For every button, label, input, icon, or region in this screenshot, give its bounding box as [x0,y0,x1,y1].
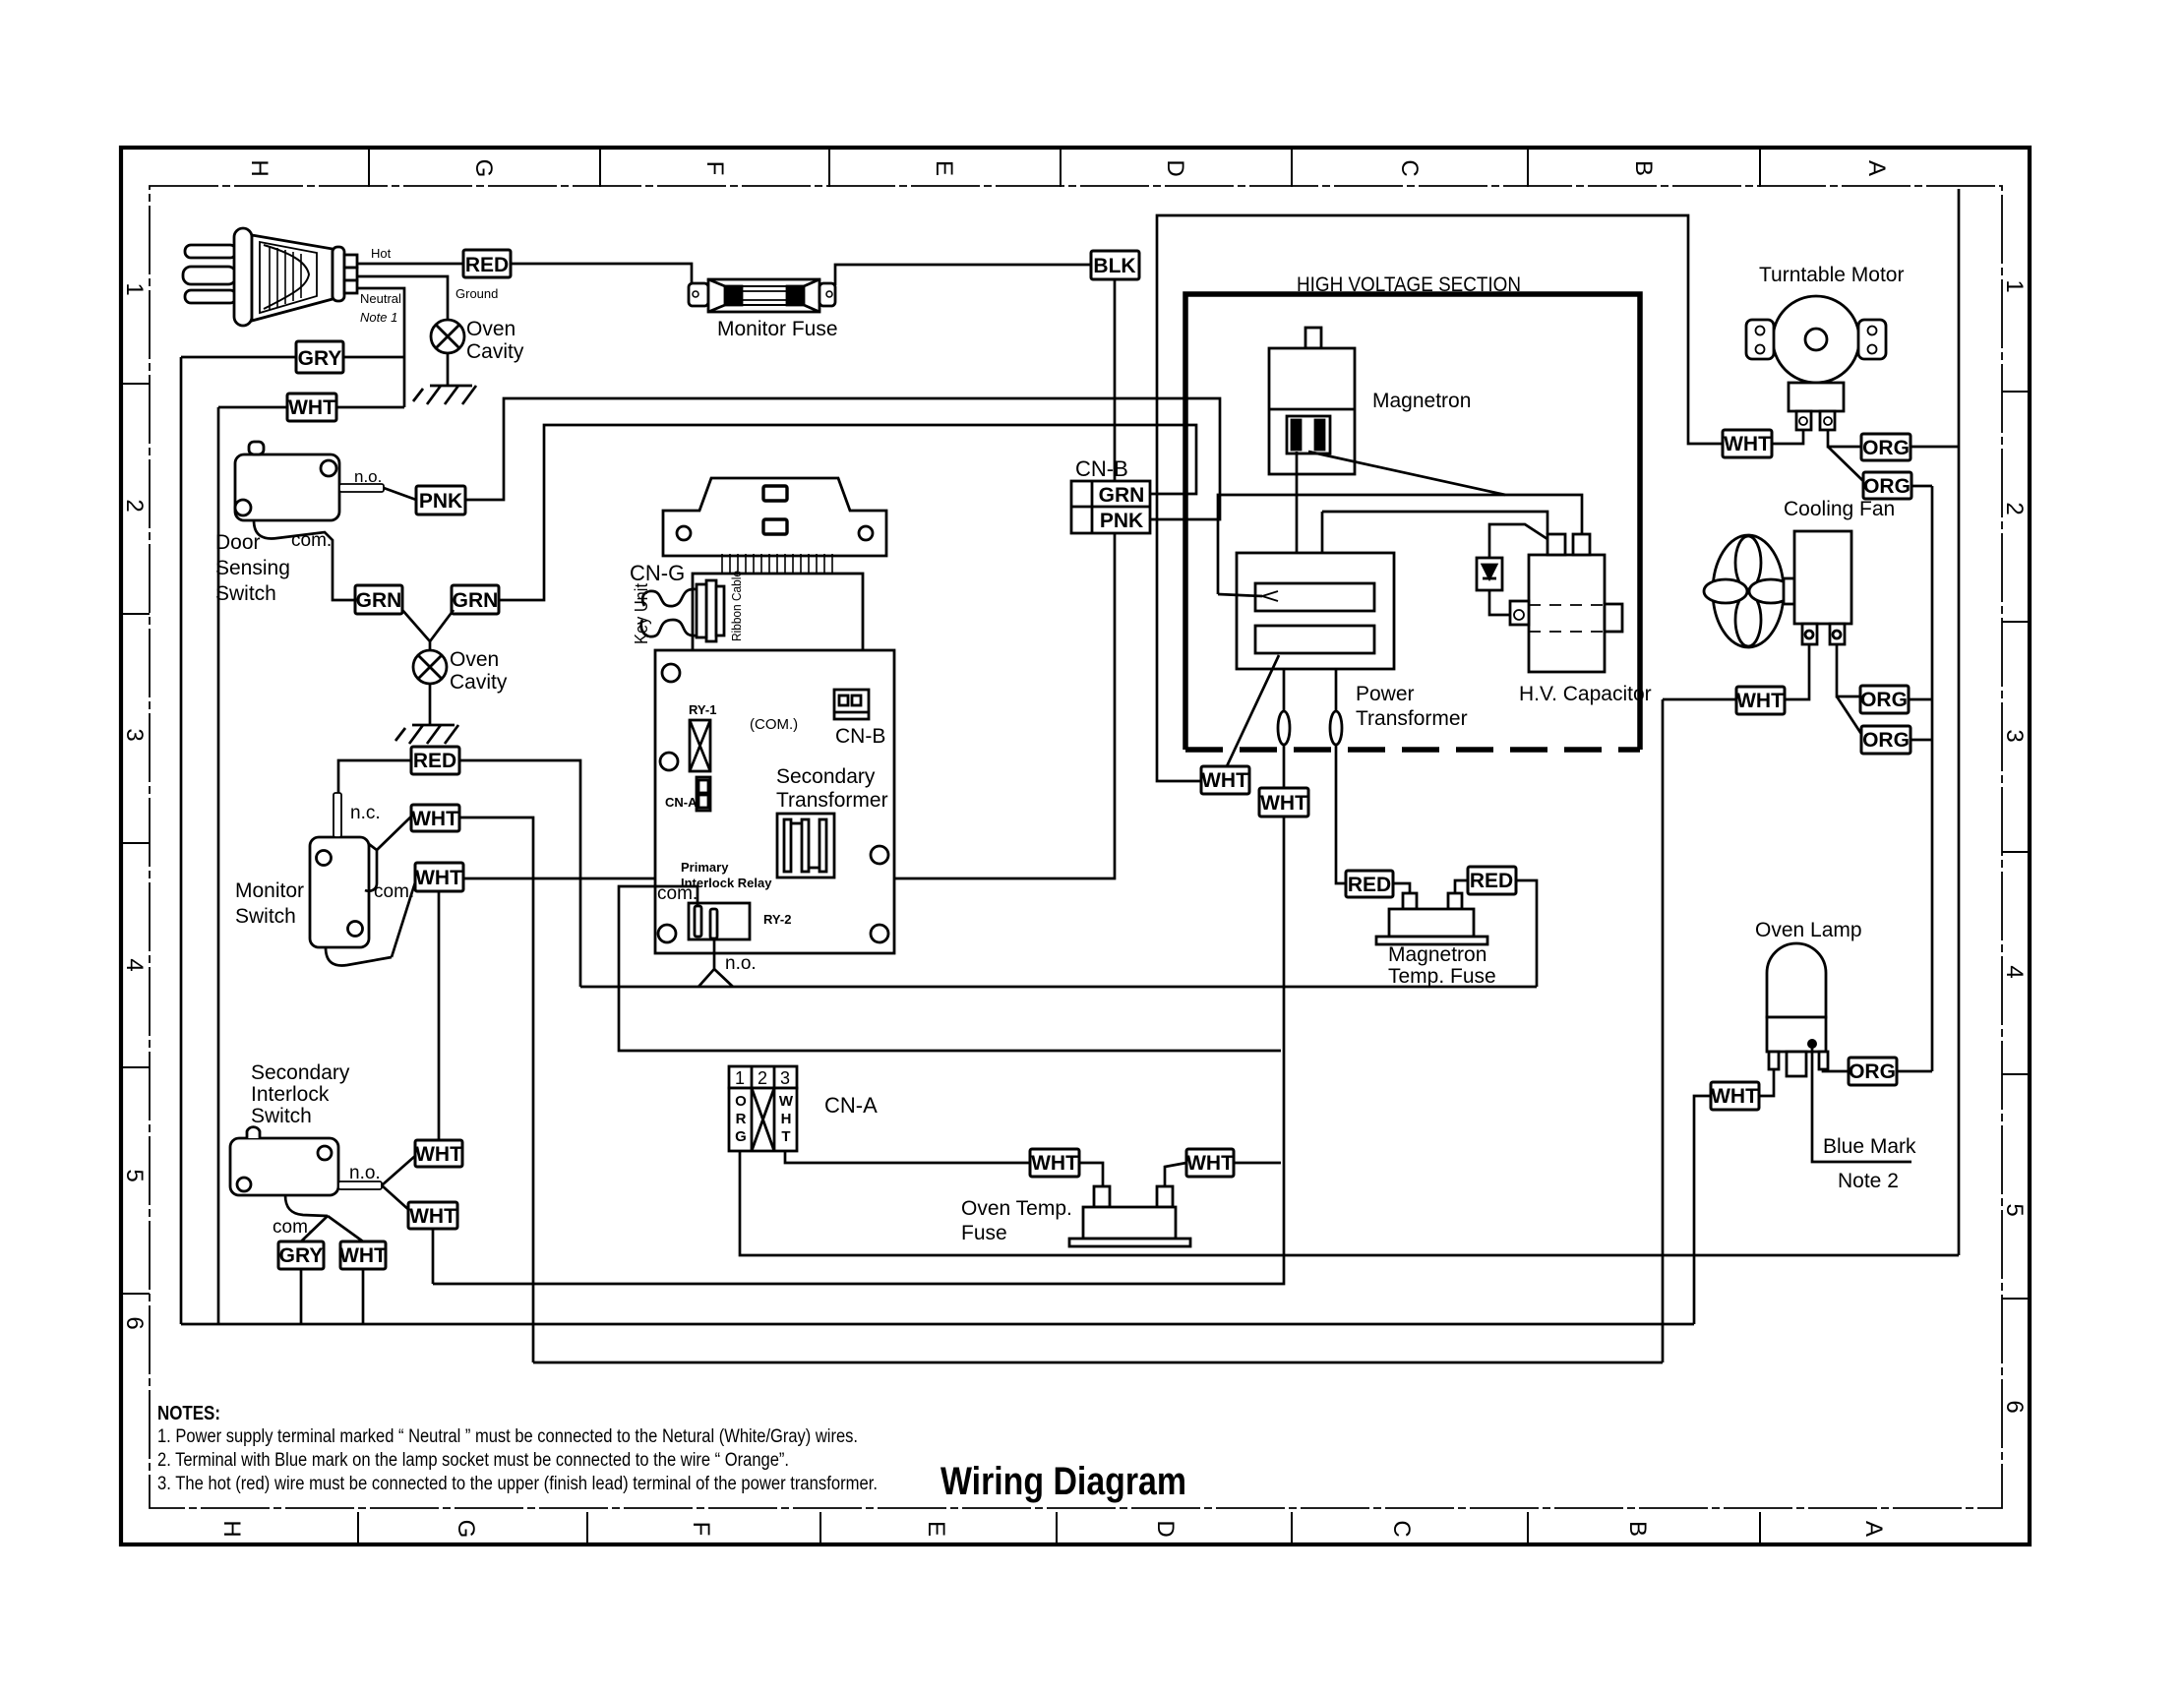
svg-text:com.: com. [291,530,332,551]
border frame outer [121,148,2030,1544]
wire hot to RED [357,263,463,266]
svg-text:WHT: WHT [415,1143,462,1166]
svg-text:4: 4 [2001,965,2028,978]
svg-text:1: 1 [121,282,148,295]
label box WHT (hv mid) [1259,788,1308,817]
svg-text:BLK: BLK [1093,255,1135,277]
svg-text:F: F [701,161,728,176]
label box ORG (fan upper) [1860,686,1909,713]
cooling fan [1704,531,1851,647]
wire diode top to capacitor terminal [1489,524,1547,558]
wire monitor lever to WHT [365,844,377,891]
svg-text:PNK: PNK [1100,510,1143,532]
frame zone numbers right [2001,279,2028,1413]
svg-text:Oven Temp.: Oven Temp. [961,1197,1072,1220]
wire com V to GRY and WHT [301,1216,328,1241]
svg-text:CN-B: CN-B [1075,456,1128,481]
wire fuse right tab to RED [1455,880,1468,893]
label box WHT (motor) [1723,430,1772,457]
label box ORG (motor lower) [1863,472,1911,499]
svg-text:ORG: ORG [1849,1060,1896,1083]
board hole 3 [871,846,888,864]
svg-text:WHT: WHT [1724,433,1771,455]
key unit mounting plate [663,478,886,556]
ground symbol 2 [395,725,458,744]
wire hv bus lower [1322,512,1547,534]
label box WHT (lamp) [1711,1082,1759,1110]
wire n.o. bus to magnetron temp fuse [580,986,1537,989]
connector CN-B on board [834,690,869,719]
svg-text:H: H [246,159,273,176]
svg-text:CN-G: CN-G [630,561,685,585]
svg-text:Secondary: Secondary [776,765,876,788]
connector CN-A on board [697,777,710,811]
svg-text:6: 6 [121,1316,148,1329]
wire WHT to neutral [336,406,404,409]
svg-text:WHT: WHT [1711,1085,1758,1108]
CN-G connector [697,580,724,641]
svg-text:2: 2 [758,1068,767,1088]
label box WHT (interlock no upper) [415,1140,462,1167]
switch monitor [310,793,369,947]
svg-text:Door: Door [215,531,261,554]
label box GRY (top) [296,341,343,373]
plate slot upper [763,486,787,501]
wire magnetron left lead [1296,452,1299,583]
svg-text:ORG: ORG [1860,689,1908,711]
svg-text:Primary: Primary [681,860,729,875]
svg-text:GRN: GRN [1099,484,1145,507]
wire RED to monitor fuse [511,264,692,285]
svg-text:G: G [453,1520,479,1539]
hv capacitor [1510,534,1622,672]
wire CN-A pin1 to orange bus [740,1151,1959,1255]
wire hv to winding [1321,512,1324,611]
svg-text:n.o.: n.o. [725,953,757,974]
connector comb bottom [726,650,828,671]
wire BLK down to monitor switch com [463,279,1115,878]
wire PNK to CN-B pink row [465,398,1220,519]
wire lamp WHT rail down [1694,1096,1711,1324]
oven temp fuse [1069,1186,1190,1246]
wire ORG to right rail [1911,446,1959,449]
frame zone letters top [246,159,1890,178]
svg-text:RY-2: RY-2 [763,912,791,927]
wire door n.o. to PNK [384,488,416,500]
svg-text:Monitor Fuse: Monitor Fuse [717,318,838,340]
label box GRN left [355,585,402,614]
svg-text:Switch: Switch [251,1105,312,1127]
svg-text:2: 2 [2001,502,2028,515]
svg-text:T: T [781,1128,790,1145]
wire monitor com curl [326,947,392,965]
wire RED to fuse left tab [1393,883,1410,893]
wire fan right terminal to ORG [1837,644,1860,696]
label box WHT (monitor com) [415,863,463,891]
oven lamp [1767,943,1828,1076]
label box ORG (lamp) [1849,1058,1897,1085]
svg-text:WHT: WHT [411,808,458,830]
wire interlock n.o. V to WHT boxes [382,1156,415,1185]
wire second left rail white net [217,407,220,1324]
notes text [157,1403,878,1494]
svg-text:n.c.: n.c. [350,803,381,823]
svg-text:Secondary: Secondary [251,1061,350,1084]
wire big loop (top / left / right) [1157,215,1723,781]
svg-text:Fuse: Fuse [961,1222,1007,1244]
svg-text:Wiring Diagram: Wiring Diagram [940,1460,1186,1503]
wire fan ORG to rail [1909,698,1932,701]
wire GRY to left rail [181,356,296,359]
magnetron [1269,328,1355,474]
svg-text:Power: Power [1356,683,1415,705]
wire WHT to gray bus [362,1269,365,1324]
key unit pcb [693,574,863,661]
svg-text:Magnetron: Magnetron [1388,943,1486,966]
connector CN-B table [1071,481,1150,533]
svg-text:6: 6 [2001,1400,2028,1413]
wire lamp1 to ground [447,353,450,386]
svg-text:WHT: WHT [339,1244,387,1267]
svg-text:Oven: Oven [450,648,499,671]
wire magnetron right lead diagonal [1308,452,1505,495]
svg-text:RED: RED [1470,870,1513,892]
svg-text:Note 2: Note 2 [1838,1170,1899,1192]
wire blue mark leader [1812,1047,1911,1162]
label box ORG (fan lower) [1861,726,1911,754]
svg-text:HIGH VOLTAGE SECTION: HIGH VOLTAGE SECTION [1297,273,1521,296]
svg-text:O: O [735,1093,747,1110]
svg-text:Interlock: Interlock [251,1083,330,1106]
wire primary into fork [1218,594,1262,596]
svg-text:3: 3 [2001,729,2028,742]
wire lamp2 to ground [429,684,432,725]
svg-text:WHT: WHT [1186,1152,1234,1175]
wire door switch com curl [254,520,355,600]
svg-text:W: W [779,1093,794,1110]
blue mark dot [1807,1039,1817,1049]
svg-text:E: E [931,160,957,176]
svg-text:Magnetron: Magnetron [1372,390,1471,412]
wire GRN right to CN-B green row [499,425,1196,600]
wire RED to n.o. bus [1516,880,1537,987]
label box ORG (motor upper) [1861,434,1911,460]
plate hole left [677,526,691,540]
svg-text:(COM.): (COM.) [750,716,798,733]
svg-text:1: 1 [735,1068,745,1088]
main control board [655,650,894,953]
svg-text:A: A [1860,1521,1887,1537]
svg-text:Switch: Switch [215,582,276,605]
svg-text:E: E [923,1521,949,1537]
wire left loop GRY [343,356,404,359]
svg-text:C: C [1396,159,1423,176]
label box PNK [416,486,465,515]
wire motor right terminal to ORG [1828,430,1861,447]
board hole 1 [662,664,680,682]
svg-text:Blue Mark: Blue Mark [1823,1135,1916,1158]
wire second orange rail [1931,486,1934,1071]
label box RED (monitor) [411,747,459,774]
svg-text:1: 1 [2001,279,2028,292]
wire relay com to board exit [619,886,1281,1051]
svg-text:B: B [1630,160,1657,176]
svg-text:A: A [1863,160,1890,176]
board hole 4 [658,925,676,942]
wire lamp left pin to WHT [1759,1069,1774,1096]
svg-text:WHT: WHT [409,1205,456,1228]
secondary transformer symbol [777,814,834,878]
svg-text:Oven Lamp: Oven Lamp [1755,919,1862,941]
wire WHT to second rail [218,406,287,409]
board hole 5 [871,925,888,942]
wire ORG lower to second rail [1911,485,1932,488]
plate slot lower [763,519,787,534]
wire transformer primary diagonal to WHT [1227,655,1279,766]
svg-text:n.o.: n.o. [349,1163,381,1183]
wire interlock com curl [285,1195,328,1216]
board hole 2 [660,753,678,770]
svg-text:GRN: GRN [453,589,499,612]
svg-text:ORG: ORG [1863,475,1911,498]
svg-text:G: G [470,159,497,178]
svg-text:CN-B: CN-B [835,725,885,748]
svg-text:n.o.: n.o. [354,467,382,486]
border frame inner chain line [150,186,2002,1508]
plate hole right [859,526,873,540]
wire relay n.o. leg [698,938,714,987]
svg-text:3: 3 [780,1068,790,1088]
svg-text:WHT: WHT [415,867,462,889]
diode [1477,558,1502,590]
wire plug ground branch [357,276,448,320]
magnetron temp fuse [1376,893,1487,944]
svg-text:CN-A: CN-A [665,795,698,810]
lamp oven cavity 1 [431,320,464,353]
wire transformer secondary left lead [433,669,1284,1284]
svg-text:Hot: Hot [371,246,392,261]
svg-text:Transformer: Transformer [1356,707,1468,730]
svg-text:4: 4 [121,958,148,971]
relay RY-2 [689,903,750,939]
svg-text:5: 5 [121,1169,148,1181]
wire WHT to transformer rail [1234,1162,1281,1165]
wire WHT to fuse left tab [1079,1163,1103,1186]
svg-text:WHT: WHT [1736,690,1784,712]
label box WHT (oven fuse left) [1030,1149,1079,1177]
svg-text:Switch: Switch [235,905,296,928]
wire hv bus upper [1218,495,1582,594]
svg-text:ORG: ORG [1862,437,1910,459]
label box WHT (hv left) [1201,766,1249,794]
wire monitor com WHT down [438,891,441,1140]
svg-text:H: H [218,1520,245,1537]
frame zone letters bottom [218,1520,1887,1539]
wire fan diagonal to ORG lower [1837,696,1861,734]
svg-text:Neutral: Neutral [360,291,401,306]
svg-text:Ribbon Cable: Ribbon Cable [729,571,744,641]
svg-text:ORG: ORG [1862,729,1910,752]
wire transformer secondary right lead [1336,669,1346,883]
svg-text:Temp. Fuse: Temp. Fuse [1388,965,1496,988]
svg-text:Sensing: Sensing [215,557,290,579]
wire diode bottom to capacitor lug [1489,590,1510,615]
frame ticks [121,148,2030,1544]
wire CN-A pin3 to WHT [785,1151,1030,1163]
svg-text:Turntable Motor: Turntable Motor [1759,264,1904,286]
svg-text:1. Power supply terminal marke: 1. Power supply terminal marked “ Neutra… [157,1426,858,1447]
label box WHT (interlock no lower) [408,1202,457,1229]
ground symbol 1 [413,386,476,404]
label box RED (line cord hot) [463,250,511,277]
wire monitor fuse to BLK [835,265,1091,285]
wire fuse right tab to WHT [1165,1163,1186,1186]
svg-text:GRY: GRY [279,1244,324,1267]
label box WHT (monitor nc) [411,805,459,831]
svg-text:5: 5 [2001,1203,2028,1216]
label box RED (fuse left) [1346,871,1393,897]
svg-text:Cavity: Cavity [450,671,508,694]
svg-text:2. Terminal with Blue mark on: 2. Terminal with Blue mark on the lamp s… [157,1450,789,1471]
svg-text:G: G [735,1128,747,1145]
svg-text:F: F [688,1522,714,1537]
wire GRN junction to lamp2 [402,610,430,650]
wire left rail gray net [180,357,183,1324]
power transformer [1237,553,1394,669]
svg-text:WHT: WHT [288,396,335,419]
svg-text:CN-A: CN-A [824,1093,878,1118]
wire lamp right pin to ORG [1823,1069,1849,1071]
frame zone numbers left [121,282,148,1329]
svg-text:RED: RED [465,254,509,276]
label box WHT (fan) [1736,687,1785,714]
svg-text:NOTES:: NOTES: [157,1403,220,1424]
bead left [1278,711,1290,745]
svg-text:RED: RED [413,750,456,772]
svg-text:R: R [736,1111,747,1127]
wire motor left terminal to WHT [1772,430,1803,444]
connector CN-A table [729,1066,797,1151]
wire fan ORG lower right [1911,739,1932,742]
svg-text:Oven: Oven [466,318,516,340]
wire upper WHT chain down [432,1229,435,1284]
svg-text:GRY: GRY [298,347,342,370]
wire gray bus bottom [181,1323,1694,1326]
svg-text:D: D [1162,159,1188,176]
wire motor diagonal to ORG lower [1828,447,1863,481]
svg-text:com.: com. [374,881,414,902]
svg-text:PNK: PNK [419,490,462,513]
turntable motor [1746,296,1886,430]
relay RY-1 [690,720,710,771]
label box GRN right [452,585,499,614]
switch secondary interlock [230,1127,382,1195]
label box WHT (oven fuse right) [1186,1149,1234,1177]
monitor fuse [689,279,835,312]
connector comb top [722,554,832,574]
svg-text:Monitor: Monitor [235,879,304,902]
high voltage section box [1185,294,1640,750]
bead right [1330,711,1342,745]
svg-text:RED: RED [1348,874,1391,896]
switch door sensing [235,442,384,520]
svg-text:Transformer: Transformer [776,789,888,812]
svg-text:WHT: WHT [1031,1152,1078,1175]
svg-text:D: D [1152,1520,1179,1537]
svg-text:WHT: WHT [1201,769,1248,792]
svg-text:C: C [1388,1520,1415,1537]
wire fan WHT to left rail [1663,698,1736,701]
label box WHT (top) [287,393,336,421]
wire fan white rail down [1662,699,1665,1362]
svg-text:WHT: WHT [1260,792,1307,815]
wire lamp ORG to rail [1897,1070,1932,1073]
svg-text:RY-1: RY-1 [689,702,716,717]
label box WHT (bottom) [340,1241,386,1269]
power supply plug [183,228,357,326]
svg-text:Ground: Ground [455,286,498,301]
wire plug neutral down [357,288,404,407]
svg-text:2: 2 [121,499,148,512]
label box RED (fuse right) [1468,867,1516,894]
svg-text:GRN: GRN [356,589,402,612]
wire GRY to gray bus [300,1269,303,1324]
svg-text:H.V. Capacitor: H.V. Capacitor [1519,683,1652,705]
wire fan left terminal to WHT [1785,644,1809,699]
label box GRY (bottom) [278,1241,324,1269]
wire monitor WHT down rail [459,817,533,1362]
svg-text:Note 1: Note 1 [360,310,397,325]
wire monitor n.c. to RED [338,760,411,793]
wire monitor RED to n.o. bus [459,760,580,987]
svg-text:3. The hot (red) wire must be: 3. The hot (red) wire must be connected … [157,1474,878,1494]
lamp oven cavity 2 [413,650,447,684]
wire right rail orange net [1958,189,1961,1255]
svg-text:3: 3 [121,728,148,741]
svg-text:Cooling Fan: Cooling Fan [1784,498,1895,520]
wire white bus bottom [533,1362,1663,1364]
svg-text:Key Unit: Key Unit [632,583,651,644]
svg-text:B: B [1624,1521,1651,1537]
label box BLK [1091,251,1139,279]
ribbon cable squiggle [649,589,697,606]
svg-text:Cavity: Cavity [466,340,524,363]
svg-text:H: H [781,1111,792,1127]
